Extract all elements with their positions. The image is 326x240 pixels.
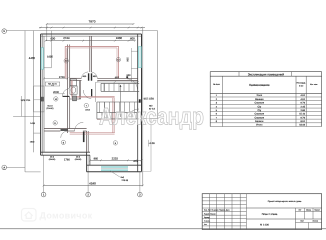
- svg-text:Балкон: Балкон: [255, 120, 264, 123]
- svg-text:1760: 1760: [64, 158, 70, 161]
- svg-text:Итого: Итого: [256, 124, 263, 127]
- svg-text:Площадь: Площадь: [297, 82, 306, 85]
- svg-text:9.76: 9.76: [301, 116, 306, 119]
- svg-text:Лист: Лист: [300, 220, 304, 223]
- svg-text:Спальня: Спальня: [254, 113, 264, 116]
- svg-text:(20+50): (20+50): [49, 158, 56, 161]
- svg-text:2000: 2000: [53, 91, 59, 94]
- svg-text:2225: 2225: [112, 156, 119, 160]
- svg-text:+0.55: +0.55: [149, 142, 156, 145]
- svg-text:479: 479: [133, 160, 138, 163]
- svg-text:9.76: 9.76: [301, 102, 306, 105]
- svg-text:915 1156: 915 1156: [144, 97, 155, 100]
- svg-text:Экспликация помещений: Экспликация помещений: [248, 72, 284, 76]
- svg-text:М 1:100: М 1:100: [260, 224, 269, 227]
- svg-text:1878 2791: 1878 2791: [21, 99, 32, 102]
- svg-text:225-98: 225-98: [122, 179, 129, 182]
- svg-text:2460: 2460: [116, 36, 123, 40]
- svg-text:Холл: Холл: [256, 94, 262, 97]
- svg-text:Наименование: Наименование: [249, 83, 270, 87]
- svg-text:(20+50): (20+50): [47, 107, 54, 110]
- svg-text:8.91: 8.91: [301, 120, 306, 123]
- svg-text:905: 905: [127, 57, 130, 62]
- svg-text:600: 600: [130, 37, 135, 41]
- svg-text:15.10: 15.10: [299, 113, 305, 116]
- svg-text:Кат. пом: Кат. пом: [310, 83, 318, 86]
- svg-text:2716: 2716: [59, 76, 65, 79]
- svg-text:2.80: 2.80: [301, 109, 306, 112]
- svg-text:7870: 7870: [89, 20, 96, 24]
- svg-text:Александр: Александр: [99, 104, 204, 131]
- svg-text:План 2 этажа: План 2 этажа: [262, 213, 278, 216]
- svg-text:Спальня: Спальня: [254, 116, 264, 119]
- svg-text:Б: Б: [3, 30, 5, 33]
- svg-text:Спальня: Спальня: [254, 102, 264, 105]
- svg-text:Лит: Лит: [298, 209, 301, 212]
- svg-text:№ пом: № пом: [213, 83, 220, 86]
- svg-text:1605: 1605: [47, 56, 53, 59]
- svg-text:885: 885: [94, 157, 99, 160]
- svg-text:Домовичок: Домовичок: [40, 210, 93, 220]
- svg-text:2744: 2744: [63, 36, 70, 40]
- svg-text:2.45: 2.45: [301, 105, 306, 108]
- svg-text:Масшт.: Масшт.: [314, 209, 320, 212]
- svg-text:4540: 4540: [89, 181, 96, 185]
- svg-text:А: А: [3, 167, 5, 170]
- svg-text:Проект интерьерного жилого дом: Проект интерьерного жилого дома: [268, 200, 302, 203]
- svg-text:4435: 4435: [29, 56, 36, 60]
- svg-text:4.91: 4.91: [301, 94, 306, 97]
- svg-text:955: 955: [115, 77, 120, 80]
- svg-text:4.91: 4.91: [301, 98, 306, 101]
- svg-text:Листов: Листов: [313, 220, 319, 223]
- svg-text:18.06: 18.06: [299, 124, 305, 127]
- svg-text:Ванная: Ванная: [255, 98, 264, 101]
- svg-text:(20+50): (20+50): [75, 158, 82, 161]
- svg-text:Масса: Масса: [306, 209, 311, 212]
